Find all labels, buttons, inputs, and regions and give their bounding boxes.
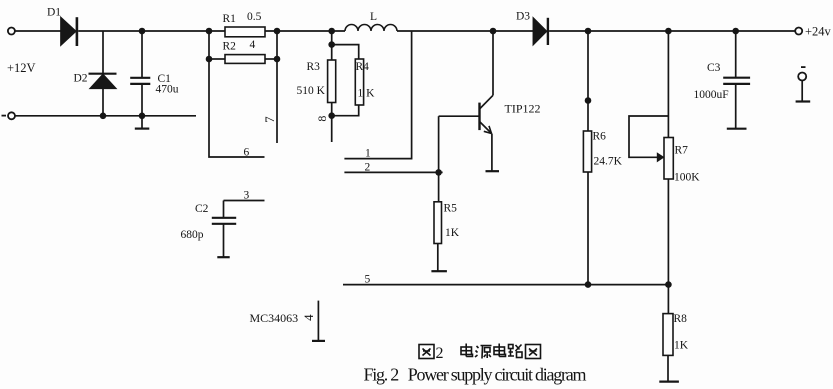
wire D2 to bottom rail	[102, 88, 104, 116]
wire C1 top lead	[141, 31, 143, 78]
wire pin 3 line	[224, 200, 265, 202]
svg-text:2: 2	[436, 345, 444, 362]
svg-text:0.5: 0.5	[247, 11, 262, 23]
diode D1	[61, 17, 77, 46]
node C1 bottom junction	[139, 113, 146, 120]
svg-text:470u: 470u	[156, 84, 179, 96]
wire R2 right lead	[265, 58, 277, 60]
capacitor C1	[130, 78, 150, 84]
diode D2	[89, 74, 117, 89]
resistor R1	[225, 27, 265, 37]
wire pin 5 line	[343, 284, 668, 286]
resistor R8	[663, 314, 673, 356]
node C3 top junction	[732, 28, 739, 35]
minus sign at input	[2, 115, 7, 117]
label pin 4	[301, 314, 316, 321]
resistor R6	[583, 131, 591, 172]
node collector junction	[490, 28, 497, 35]
svg-text:4: 4	[250, 39, 256, 51]
node minus output terminal	[796, 67, 811, 101]
node R6 line5 junction	[585, 281, 592, 288]
node C1 top junction	[139, 28, 146, 35]
svg-text:+12V: +12V	[7, 61, 36, 75]
svg-text:2: 2	[365, 162, 371, 174]
node R1 right junction	[274, 28, 281, 35]
svg-text:680p: 680p	[181, 229, 204, 241]
diode D3	[533, 18, 548, 45]
svg-text:R7: R7	[675, 145, 689, 157]
wire pin 4 to ground	[312, 301, 325, 341]
caption line 1: 图2 电源电路图 (hand-drawn strokes)	[419, 344, 541, 363]
svg-text:R4: R4	[356, 61, 370, 73]
wire R4 bottom lead	[332, 105, 359, 116]
hanzi tu (图) first	[419, 345, 434, 359]
wire C3 top lead	[735, 31, 737, 78]
svg-text:7: 7	[262, 116, 277, 123]
svg-text:R8: R8	[674, 313, 688, 325]
wire collector to rail	[492, 31, 494, 95]
svg-text:TIP122: TIP122	[505, 102, 541, 116]
svg-text:+24v: +24v	[805, 25, 832, 39]
node R2 left junction	[206, 56, 213, 63]
svg-text:4: 4	[301, 314, 316, 321]
capacitor C3	[723, 78, 750, 84]
svg-text:5: 5	[365, 274, 371, 286]
svg-text:3: 3	[244, 190, 250, 202]
svg-text:D3: D3	[516, 11, 530, 23]
node R6 column junction	[585, 97, 592, 104]
hanzi yuan (源)	[475, 346, 492, 359]
svg-text:6: 6	[244, 147, 250, 159]
node R7 top junction	[665, 28, 672, 35]
svg-text:R1: R1	[223, 13, 237, 25]
svg-text:MC34063: MC34063	[250, 311, 299, 325]
node +12V input terminal	[8, 28, 15, 35]
transistor Q1 TIP122	[480, 95, 494, 133]
potentiometer R7	[664, 138, 673, 180]
node R1 left junction	[206, 28, 213, 35]
wire R4 top branch	[332, 45, 359, 59]
wire pin 7 line	[276, 31, 278, 143]
ground at R5 bottom	[431, 244, 447, 272]
svg-text:L: L	[370, 11, 377, 23]
svg-text:R5: R5	[444, 203, 458, 215]
ground at C2 bottom	[217, 224, 229, 257]
wire R2 left lead	[209, 58, 225, 60]
svg-text:1K: 1K	[445, 227, 460, 239]
resistor R5	[434, 202, 442, 244]
node R7 line5 junction	[665, 281, 672, 288]
wire pin 1 line	[344, 31, 411, 159]
wire D1 to R1	[78, 30, 225, 32]
ground at R8 bottom	[659, 355, 679, 381]
svg-text:1000uF: 1000uF	[694, 89, 729, 101]
node -12V input terminal	[8, 112, 15, 119]
svg-text:C3: C3	[707, 62, 721, 74]
wire bottom rail	[15, 115, 196, 117]
svg-text:R6: R6	[593, 131, 607, 143]
wire top rail R1 right lead to inductor	[265, 30, 345, 32]
capacitor C2	[212, 218, 236, 224]
svg-text:R3: R3	[307, 61, 321, 73]
wire base vertical	[438, 116, 440, 172]
resistor R2	[225, 55, 265, 64]
node D2 bottom junction	[100, 113, 107, 120]
hanzi lu (路)	[508, 345, 522, 358]
svg-text:100K: 100K	[674, 172, 700, 184]
node R3 top junction	[328, 28, 335, 35]
wire inductor to D3	[397, 30, 533, 32]
hanzi dian (电) second	[494, 344, 506, 357]
hanzi tu (图) second	[526, 345, 541, 359]
svg-text:1 K: 1 K	[358, 88, 376, 100]
svg-text:24.7K: 24.7K	[594, 156, 623, 168]
wire pin 6 line	[209, 59, 265, 157]
node R6 top junction	[585, 28, 592, 35]
ground at C3 bottom	[727, 84, 747, 129]
wire D3 to +24v terminal	[549, 30, 795, 32]
svg-text:Fig. 2 Power supply circuit: Fig. 2 Power supply circuit diagram	[364, 365, 587, 385]
node +24v output terminal	[795, 28, 802, 35]
wire R7 wiper loop	[629, 116, 668, 157]
wire R3 top lead	[331, 31, 333, 60]
node base/R5 junction	[435, 169, 442, 176]
svg-text:D2: D2	[74, 73, 88, 85]
svg-text:1: 1	[365, 148, 371, 160]
wire R6 top lead	[587, 31, 589, 131]
wire R2 left stub	[208, 31, 210, 59]
svg-text:D1: D1	[47, 7, 61, 19]
wire pin 8 line	[331, 103, 333, 143]
svg-text:C2: C2	[195, 203, 209, 215]
wire base lead	[439, 115, 480, 117]
wire D2 branch	[102, 31, 104, 74]
node R3 bottom junction	[328, 112, 335, 119]
wire pin 2 line	[344, 171, 442, 173]
label pin 7	[262, 116, 277, 123]
label pin 8	[315, 116, 329, 122]
svg-text:R2: R2	[223, 41, 237, 53]
R7 wiper arrow	[657, 152, 665, 162]
svg-text:510 K: 510 K	[297, 85, 326, 97]
hanzi dian (电) first	[461, 344, 473, 357]
wire R6 bottom lead	[587, 172, 589, 285]
wire emitter down	[491, 134, 493, 171]
ground at C1 bottom	[135, 116, 150, 129]
wire input to D1	[15, 30, 61, 32]
svg-text:1K: 1K	[674, 340, 689, 352]
wire R5 top lead	[438, 172, 440, 201]
node R4 branch junction	[328, 41, 335, 48]
resistor R3	[328, 60, 336, 103]
resistor R4	[355, 59, 363, 105]
wire R7 top lead	[667, 31, 669, 138]
wire C1 to bottom rail	[141, 84, 143, 116]
inductor L	[345, 25, 397, 32]
node R2 right junction	[274, 56, 281, 63]
svg-text:8: 8	[315, 116, 329, 122]
wire C2 top lead	[223, 201, 225, 218]
wire R7 bottom lead	[667, 179, 669, 314]
ground at emitter	[486, 170, 500, 172]
